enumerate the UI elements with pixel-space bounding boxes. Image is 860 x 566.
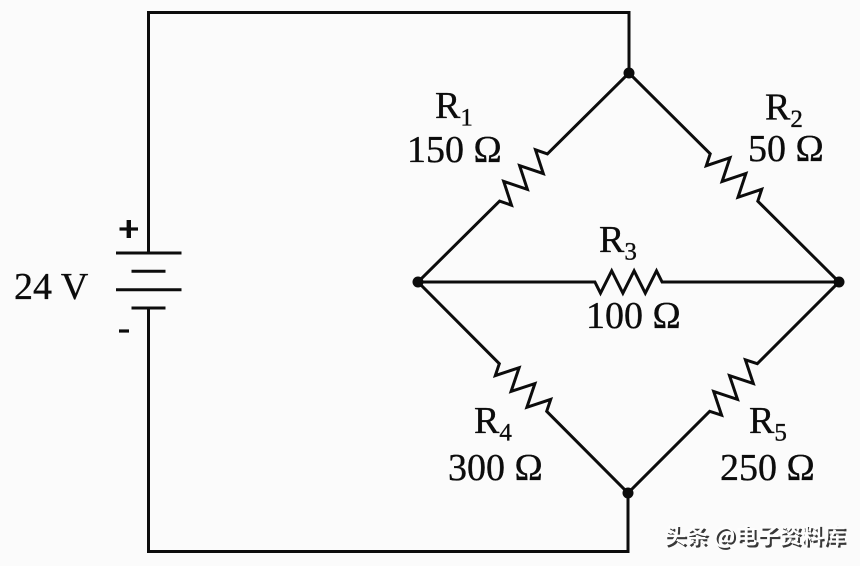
- svg-text:150 Ω: 150 Ω: [407, 129, 502, 171]
- svg-text:24 V: 24 V: [14, 266, 89, 308]
- svg-text:50 Ω: 50 Ω: [748, 128, 824, 170]
- svg-text:250 Ω: 250 Ω: [720, 447, 815, 489]
- svg-text:100 Ω: 100 Ω: [586, 295, 681, 337]
- svg-text:300 Ω: 300 Ω: [448, 447, 543, 489]
